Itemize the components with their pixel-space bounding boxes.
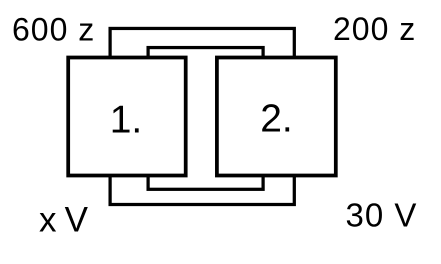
outer core loop xyxy=(110,28,294,204)
winding 2 box xyxy=(217,58,336,176)
svg-text:200 z: 200 z xyxy=(333,11,416,47)
svg-text:2.: 2. xyxy=(260,98,293,141)
inner core loop xyxy=(148,48,263,190)
svg-text:x V: x V xyxy=(39,201,89,240)
svg-text:30 V: 30 V xyxy=(346,197,418,234)
winding 1 box xyxy=(68,58,186,176)
svg-text:600 z: 600 z xyxy=(12,12,95,48)
svg-text:1.: 1. xyxy=(110,99,143,142)
